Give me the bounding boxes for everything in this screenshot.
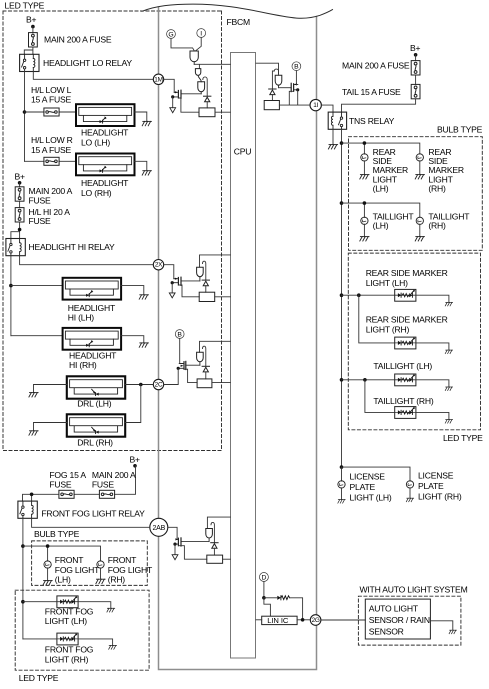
svg-text:LED TYPE: LED TYPE xyxy=(5,1,45,11)
svg-text:HEADLIGHT HI RELAY: HEADLIGHT HI RELAY xyxy=(29,242,115,252)
wire HI relay coil to node 2X xyxy=(20,256,154,265)
junction fog relay coil xyxy=(30,493,34,497)
wire LO LH to ground xyxy=(135,112,147,121)
wire HI RH to ground xyxy=(121,336,144,343)
svg-text:H/L LOW L: H/L LOW L xyxy=(31,85,72,95)
node 2X xyxy=(153,260,163,270)
wire taillight RH to ground xyxy=(419,224,421,236)
LED lamp front fog (LH) xyxy=(57,596,78,608)
wire Q4 drain to resistor R4 xyxy=(184,369,197,382)
node 2C xyxy=(153,379,163,389)
wire node 2X to Q3 xyxy=(164,265,174,279)
ground (LO LH) xyxy=(142,121,151,125)
signal B circle (DRL supply) xyxy=(175,330,184,339)
wire gate to MOSFET Q1 gate xyxy=(181,93,201,95)
ground (fog LED RH) xyxy=(109,646,117,650)
LED TYPE enclosure (headlights) xyxy=(3,11,222,451)
wire Q3 drain to resistor R3 xyxy=(179,285,199,297)
wire node 1M to Q1 xyxy=(164,79,175,92)
output arrow (2X continues) xyxy=(169,293,175,298)
wire fog relay coil to node 2AB xyxy=(32,518,150,527)
headlight HEADLIGHT HI (RH) xyxy=(63,328,122,350)
wire diode to R1 xyxy=(206,102,208,108)
wire taillight LED LH to ground xyxy=(416,380,449,387)
wire license RH to ground xyxy=(409,488,411,498)
junction taillight LH xyxy=(363,201,367,205)
svg-text:REAR SIDE MARKER: REAR SIDE MARKER xyxy=(366,315,448,325)
wire Q1 to output arrow xyxy=(172,97,174,108)
lamp LICENSE PLATE LIGHT (RH) bulb xyxy=(406,481,413,488)
fuse MAIN 200 A (fog) xyxy=(99,490,114,498)
fuse H/L HI 20 A FUSE xyxy=(15,208,24,222)
fuse TAIL 15 A FUSE xyxy=(411,84,420,98)
FBCM module border xyxy=(159,8,317,670)
svg-text:HEADLIGHT: HEADLIGHT xyxy=(69,350,117,360)
svg-text:FUSE: FUSE xyxy=(92,480,115,490)
relay HEADLIGHT HI RELAY xyxy=(6,239,25,256)
wire D to LIN IC xyxy=(264,598,271,616)
wire R4 to CPU xyxy=(212,382,231,384)
svg-text:B+: B+ xyxy=(26,15,37,25)
wire to fog LED RH xyxy=(23,638,57,640)
ground (taillight RH) xyxy=(415,237,424,241)
svg-text:B: B xyxy=(177,331,182,338)
junction rail/marker feed xyxy=(340,141,344,145)
wire CPU to gate U3 (2X driver) xyxy=(200,255,231,267)
ground (TNS coil) xyxy=(328,145,337,149)
wire diode to R5 xyxy=(213,548,215,555)
wire Q2 body to sense line xyxy=(289,91,293,105)
lamp TAILLIGHT (RH) bulb xyxy=(416,217,423,224)
svg-text:LICENSE: LICENSE xyxy=(350,471,386,481)
wire LO RH to ground xyxy=(135,161,147,170)
svg-text:LICENSE: LICENSE xyxy=(418,470,454,480)
ground (marker RH) xyxy=(415,175,424,179)
junction above HI relay xyxy=(18,228,22,232)
wire node 2AB to Q5 xyxy=(168,527,177,539)
output arrow (2AB continues) xyxy=(172,555,178,560)
ground (HI LH) xyxy=(139,295,148,299)
svg-text:HI (RH): HI (RH) xyxy=(69,360,97,370)
wire D to diode D6 xyxy=(264,597,277,599)
junction fog bulb LH tap xyxy=(46,544,50,548)
junction rail/taillight LED feed xyxy=(340,378,344,382)
wire marker LED RH to ground xyxy=(416,343,449,350)
svg-text:WITH AUTO LIGHT SYSTEM: WITH AUTO LIGHT SYSTEM xyxy=(360,584,468,594)
fuse H/L LOW L 15 A xyxy=(44,108,59,116)
svg-text:(RH): (RH) xyxy=(428,221,446,231)
ground (marker LH) xyxy=(360,175,369,179)
junction rail/marker LED feed xyxy=(340,293,344,297)
wire between right fuses xyxy=(415,75,417,84)
junction (HI LH tap) xyxy=(9,284,13,288)
wire marker LH bulb to ground xyxy=(363,161,365,175)
wire HI relay switch rail xyxy=(10,256,12,336)
svg-text:CPU: CPU xyxy=(234,147,251,157)
wire HI LH to ground xyxy=(121,286,144,295)
svg-text:FRONT FOG: FRONT FOG xyxy=(45,606,94,616)
wire to taillight LED RH xyxy=(365,380,395,413)
output arrow (1M continues) xyxy=(170,108,176,113)
ground (taillight LH) xyxy=(360,237,369,241)
wire R6 to 2G junction xyxy=(290,598,303,620)
wire 2G to sensor xyxy=(321,619,365,621)
wire marker feed xyxy=(342,143,420,154)
wire diode to R4 xyxy=(205,372,207,379)
svg-text:B+: B+ xyxy=(15,171,26,181)
svg-text:FOG LIGHT: FOG LIGHT xyxy=(108,565,153,575)
relay TNS RELAY xyxy=(328,112,346,129)
ground (marker LED RH) xyxy=(445,350,452,354)
svg-text:FUSE: FUSE xyxy=(29,195,52,205)
CPU block xyxy=(231,53,256,659)
wire D down xyxy=(263,582,265,598)
svg-text:LED TYPE: LED TYPE xyxy=(443,433,483,443)
junction D node xyxy=(262,596,266,600)
node B+ (headlight HI feed) xyxy=(15,171,26,187)
wire taillight LED feed xyxy=(342,379,395,381)
wire TNS switch output rail xyxy=(341,129,343,467)
ground (marker LED LH) xyxy=(445,302,452,306)
driver gate U3 xyxy=(197,267,204,281)
wire to marker LED RH xyxy=(359,295,395,343)
transistor Q4 (2C DRL driver) xyxy=(178,361,186,369)
svg-text:TAILLIGHT (LH): TAILLIGHT (LH) xyxy=(373,361,432,371)
svg-text:MAIN 200 A: MAIN 200 A xyxy=(92,470,136,480)
wire to HI RH xyxy=(11,335,63,337)
LED lamp taillight (RH) xyxy=(395,407,416,419)
lamp REAR SIDE MARKER LIGHT (LH) bulb xyxy=(361,154,368,161)
clamp hook wire (B driver) xyxy=(272,69,278,89)
wire marker RH bulb to ground xyxy=(419,161,421,175)
lamp TAILLIGHT (LH) bulb xyxy=(361,217,368,224)
wire license LH to ground xyxy=(341,488,343,500)
node 1M xyxy=(153,74,163,84)
transistor Q2 (TNS relay driver) xyxy=(291,83,298,91)
wire to LOW L fuse xyxy=(25,111,77,113)
wire gate to MOSFET Q5 xyxy=(181,541,209,543)
clamp hook wire (2C) xyxy=(203,346,206,366)
wire to HI LH xyxy=(11,285,63,287)
svg-text:FUSE: FUSE xyxy=(49,480,72,490)
fuse MAIN 200 A FUSE (headlight LO) xyxy=(29,33,38,47)
svg-text:HEADLIGHT: HEADLIGHT xyxy=(81,128,129,138)
junction rail/taillight feed xyxy=(340,201,344,205)
svg-text:LIGHT (LH): LIGHT (LH) xyxy=(366,278,408,288)
clamp hook wire (2X) xyxy=(203,261,206,280)
junction Q2 source xyxy=(296,88,299,91)
junction marker LH xyxy=(363,141,367,145)
junction fog bulb feed xyxy=(21,544,25,548)
fuse MAIN 200 A FUSE (right) xyxy=(411,61,420,75)
wire diode to R3 xyxy=(205,286,207,293)
wire between fog fuses xyxy=(74,493,99,495)
ground (license RH) xyxy=(406,498,413,502)
wire CPU to gate U5 (2AB driver) xyxy=(207,517,230,528)
wire Q5 to output arrow xyxy=(174,544,176,555)
fuse MAIN 200 A FUSE (HI feed) xyxy=(15,187,24,201)
diode D3 (clamp) xyxy=(202,280,209,286)
svg-text:LIGHT (RH): LIGHT (RH) xyxy=(366,324,410,334)
svg-text:SENSOR / RAIN: SENSOR / RAIN xyxy=(369,615,430,625)
wire Q1 drain to resistor R1 xyxy=(179,98,199,112)
wire to fog LED LH xyxy=(23,601,57,603)
diode D5 (clamp) xyxy=(211,543,218,549)
driver gate U1b xyxy=(195,69,201,82)
svg-text:B+: B+ xyxy=(130,454,141,464)
resistor R4 (sense) xyxy=(197,379,212,388)
ground (sensor) xyxy=(449,630,456,634)
sensor AUTO LIGHT SENSOR / RAIN SENSOR xyxy=(365,599,430,639)
driver gate U4 xyxy=(197,352,204,365)
ground (DRL RH) xyxy=(29,431,38,435)
svg-text:HI (LH): HI (LH) xyxy=(68,313,95,323)
signal D circle (LIN) xyxy=(259,573,268,582)
wire CPU to gate U2 xyxy=(256,63,279,75)
svg-text:2C: 2C xyxy=(155,382,163,389)
svg-text:HEADLIGHT LO RELAY: HEADLIGHT LO RELAY xyxy=(43,58,132,68)
ground (LO RH) xyxy=(142,171,151,175)
svg-text:MAIN 200 A FUSE: MAIN 200 A FUSE xyxy=(342,61,410,71)
svg-text:BULB TYPE: BULB TYPE xyxy=(437,125,483,135)
IC LIN IC xyxy=(262,616,297,625)
svg-text:D: D xyxy=(261,574,266,581)
LED TYPE enclosure (rear) xyxy=(348,253,480,430)
svg-text:FOG LIGHT: FOG LIGHT xyxy=(55,565,100,575)
auto light system enclosure xyxy=(358,596,461,645)
ground (fog LED LH) xyxy=(107,608,115,612)
node B+ (headlight LO feed) xyxy=(26,15,37,34)
fuse H/L LOW R 15 A xyxy=(44,157,59,165)
wire marker LED feed xyxy=(342,294,395,296)
svg-text:PLATE: PLATE xyxy=(350,482,376,492)
wire DRL RH left to ground xyxy=(34,423,67,431)
signal G circle xyxy=(167,30,176,39)
wire fog bulb feed xyxy=(23,546,101,561)
LED lamp rear side marker (RH) xyxy=(395,337,416,349)
svg-text:1I: 1I xyxy=(313,102,318,109)
wire sensor to ground xyxy=(430,621,452,630)
svg-text:(RH): (RH) xyxy=(428,184,446,194)
driver gate U5 xyxy=(206,529,213,542)
svg-text:FOG 15 A: FOG 15 A xyxy=(49,470,86,480)
wire taillight LED RH to ground xyxy=(416,412,449,419)
svg-text:2G: 2G xyxy=(312,617,320,624)
LED TYPE enclosure (fog) xyxy=(15,590,149,670)
svg-text:AUTO LIGHT: AUTO LIGHT xyxy=(369,604,419,614)
DRL (LH) lamp xyxy=(67,376,125,398)
diode D1 (clamp) xyxy=(204,96,211,102)
svg-text:LIGHT (RH): LIGHT (RH) xyxy=(45,654,89,664)
svg-text:2X: 2X xyxy=(155,262,163,269)
junction marker LED RH tap xyxy=(357,293,361,297)
junction (H/L LOW L tap) xyxy=(23,110,27,114)
wire Q2 source to node 1I xyxy=(298,90,311,105)
BULB TYPE enclosure (rear) xyxy=(349,137,483,251)
svg-text:BULB TYPE: BULB TYPE xyxy=(34,529,80,539)
svg-text:LED TYPE: LED TYPE xyxy=(19,673,59,683)
wire fuse to HI relay xyxy=(11,222,20,239)
svg-text:LO (LH): LO (LH) xyxy=(81,137,110,147)
node 2AB xyxy=(150,518,168,536)
wire DRL LH to node 2C xyxy=(125,384,153,386)
wire node 1I to TNS coil xyxy=(321,105,333,112)
svg-text:FRONT: FRONT xyxy=(108,555,137,565)
wire license feed xyxy=(342,467,411,481)
wire LO relay switch rail xyxy=(24,72,26,162)
wire fog bulb LH to ground xyxy=(47,568,49,581)
resistor R3 (sense) xyxy=(199,292,215,301)
junction (DRL RH tap) xyxy=(139,383,143,387)
wire Q5 drain to resistor R5 xyxy=(179,546,207,560)
node 1I xyxy=(310,99,321,110)
LED lamp rear side marker (LH) xyxy=(395,289,416,301)
wire R1 to CPU xyxy=(215,111,230,113)
svg-text:SENSOR: SENSOR xyxy=(369,627,404,637)
svg-text:TNS RELAY: TNS RELAY xyxy=(349,116,395,126)
ground (fog bulb RH) xyxy=(96,579,105,583)
DRL (RH) lamp xyxy=(67,414,125,436)
headlight HEADLIGHT LO (LH) xyxy=(76,104,135,126)
svg-text:LO (RH): LO (RH) xyxy=(81,188,112,198)
wire B to Q2 drain xyxy=(296,71,297,85)
signal I circle xyxy=(197,29,206,38)
wire DRL LH left to ground xyxy=(34,385,67,393)
LED lamp taillight (LH) xyxy=(395,374,416,386)
ground (license LH) xyxy=(338,500,345,504)
wire taillight LH to ground xyxy=(363,224,365,236)
wire CPU to gate U4 (2C driver) xyxy=(200,341,231,352)
wire R3 to CPU xyxy=(215,296,231,298)
wire LO relay coil to node 1M xyxy=(33,72,153,80)
svg-text:15 A FUSE: 15 A FUSE xyxy=(31,95,72,105)
node 2G xyxy=(310,615,321,626)
lamp LICENSE PLATE LIGHT (LH) bulb xyxy=(338,481,345,488)
svg-text:LIGHT (RH): LIGHT (RH) xyxy=(418,491,462,501)
svg-text:(LH): (LH) xyxy=(373,221,389,231)
diode D6 (LIN series) xyxy=(277,596,281,600)
resistor R1 (sense) xyxy=(199,108,215,117)
resistor R2 (sense) xyxy=(264,101,279,110)
svg-text:FRONT FOG: FRONT FOG xyxy=(45,645,94,655)
svg-text:FBCM: FBCM xyxy=(227,17,251,27)
wire TNS coil to ground xyxy=(332,129,334,144)
ground (DRL LH) xyxy=(29,393,38,397)
headlight HEADLIGHT LO (RH) xyxy=(76,154,135,176)
junction Q3 source xyxy=(171,281,174,284)
svg-text:LIGHT (LH): LIGHT (LH) xyxy=(350,492,392,502)
wire G to AND gate xyxy=(171,39,194,51)
svg-text:FUSE: FUSE xyxy=(29,216,52,226)
junction Q4 source xyxy=(177,367,180,370)
svg-text:REAR SIDE MARKER: REAR SIDE MARKER xyxy=(366,268,448,278)
diode D4 (clamp) xyxy=(202,366,209,372)
lamp FRONT FOG LIGHT (LH) bulb xyxy=(44,561,51,568)
driver gate U1a (G/I AND) xyxy=(190,51,198,64)
junction taillight LED RH tap xyxy=(363,378,367,382)
diode D2 (clamp) xyxy=(269,89,276,95)
wire fog bulb RH to ground xyxy=(100,568,102,579)
svg-text:(RH): (RH) xyxy=(108,575,126,585)
svg-text:15 A FUSE: 15 A FUSE xyxy=(31,145,72,155)
transistor Q5 (2AB fog relay driver) xyxy=(175,538,181,546)
node B+ (TNS feed) xyxy=(410,43,421,61)
svg-text:2AB: 2AB xyxy=(152,525,165,532)
wire DRL RH to junction xyxy=(125,385,141,423)
wire gate to MOSFET Q4 xyxy=(186,364,200,366)
svg-text:(LH): (LH) xyxy=(55,575,71,585)
BULB TYPE enclosure (fog) xyxy=(32,541,148,586)
junction Q1 source xyxy=(171,95,174,98)
transistor Q1 (1M high-side MOSFET) xyxy=(173,90,181,98)
wire TAIL fuse to TNS relay switch xyxy=(342,99,416,112)
wire 1M driver to CPU xyxy=(194,64,230,68)
wire fog LED LH to ground xyxy=(78,602,111,609)
svg-text:FRONT FOG LIGHT RELAY: FRONT FOG LIGHT RELAY xyxy=(41,508,145,518)
fuse FOG 15 A xyxy=(59,490,74,498)
svg-text:TAIL 15 A FUSE: TAIL 15 A FUSE xyxy=(342,87,401,97)
svg-text:H/L LOW R: H/L LOW R xyxy=(31,135,73,145)
node B+ (fog feed) xyxy=(115,454,140,494)
wire Q3 to output arrow xyxy=(171,283,173,293)
svg-text:PLATE: PLATE xyxy=(418,481,444,491)
wire to LOW R fuse xyxy=(25,160,77,162)
ground (taillight LED LH) xyxy=(445,387,452,391)
svg-text:DRL (LH): DRL (LH) xyxy=(77,398,112,408)
ground (HI RH) xyxy=(139,343,148,347)
svg-text:FRONT: FRONT xyxy=(55,555,84,565)
lamp FRONT FOG LIGHT (RH) bulb xyxy=(97,561,104,568)
wire fog LED RH to ground xyxy=(78,639,113,646)
transistor Q3 (2X HI relay driver) xyxy=(172,277,181,285)
wire marker LED LH to ground xyxy=(416,295,449,302)
wire R2 to 1I line xyxy=(279,104,297,106)
svg-text:I: I xyxy=(200,30,202,37)
svg-text:G: G xyxy=(168,31,173,38)
clamp hook wire (1M) xyxy=(203,77,207,96)
resistor R5 (sense) xyxy=(207,555,223,563)
wire fuse to relay xyxy=(24,47,33,54)
signal B circle (TNS driver supply) xyxy=(292,62,301,71)
svg-text:DRL (RH): DRL (RH) xyxy=(77,437,113,447)
wire I to AND gate xyxy=(196,38,202,51)
svg-text:(LH): (LH) xyxy=(373,184,389,194)
wire gate to MOSFET Q3 xyxy=(181,280,200,282)
svg-text:LIN IC: LIN IC xyxy=(267,616,289,625)
wire fog relay switch rail xyxy=(22,518,24,639)
wire node 2C to Q4 source xyxy=(164,368,179,384)
resistor R6 (LIN series zigzag) xyxy=(281,596,290,600)
wire CPU to LIN IC xyxy=(256,619,262,621)
lamp REAR SIDE MARKER LIGHT (RH) bulb xyxy=(416,154,423,161)
junction rail/license feed xyxy=(340,465,344,469)
svg-text:B: B xyxy=(294,64,299,71)
ground (fog bulb LH) xyxy=(43,581,52,585)
driver gate U1c xyxy=(198,82,205,94)
svg-text:HEADLIGHT: HEADLIGHT xyxy=(81,178,129,188)
svg-text:B+: B+ xyxy=(410,43,421,53)
driver gate U2 xyxy=(275,75,282,88)
relay FRONT FOG LIGHT RELAY xyxy=(18,501,37,518)
junction Q5 source xyxy=(173,543,176,546)
svg-text:1M: 1M xyxy=(154,76,162,83)
svg-text:HEADLIGHT: HEADLIGHT xyxy=(68,303,116,313)
LED lamp front fog (RH) xyxy=(57,633,78,645)
wire fog fuse to relay xyxy=(23,494,59,501)
svg-text:MAIN 200 A FUSE: MAIN 200 A FUSE xyxy=(44,35,112,45)
svg-text:LIGHT (LH): LIGHT (LH) xyxy=(45,616,87,626)
svg-text:TAILLIGHT (RH): TAILLIGHT (RH) xyxy=(373,396,433,406)
